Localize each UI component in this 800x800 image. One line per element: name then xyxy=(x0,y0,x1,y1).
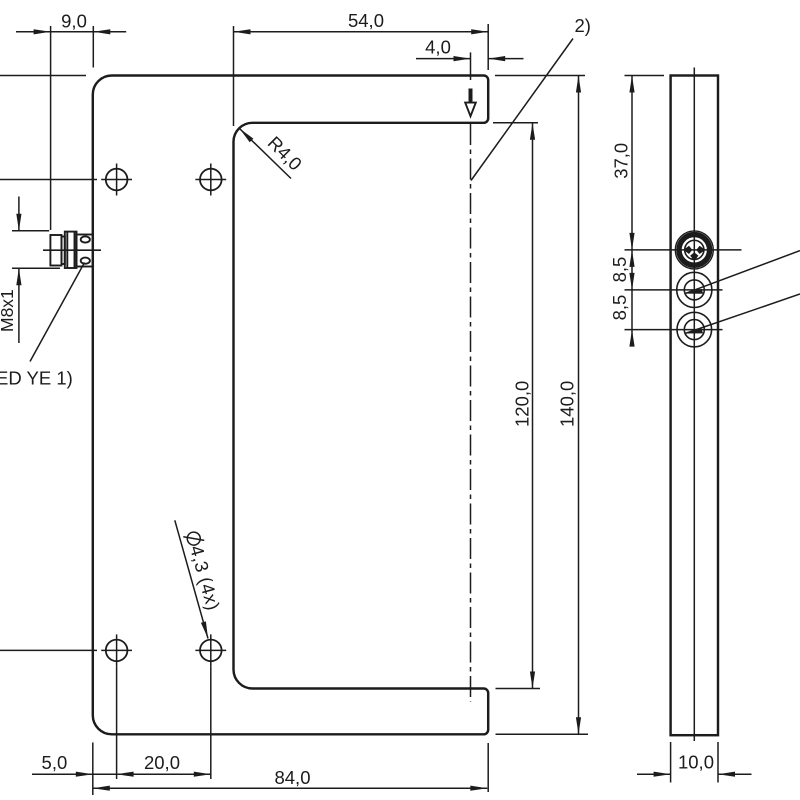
svg-text:140,0: 140,0 xyxy=(557,381,578,427)
svg-text:5,0: 5,0 xyxy=(42,752,68,773)
svg-text:37,0: 37,0 xyxy=(611,143,632,179)
svg-text:4,0: 4,0 xyxy=(425,37,451,58)
svg-text:84,0: 84,0 xyxy=(274,767,310,788)
svg-text:54,0: 54,0 xyxy=(348,10,384,31)
svg-text:2): 2) xyxy=(575,15,591,36)
svg-text:ED YE 1): ED YE 1) xyxy=(0,368,73,389)
svg-text:120,0: 120,0 xyxy=(512,381,533,427)
svg-text:8,5: 8,5 xyxy=(609,257,630,283)
svg-text:20,0: 20,0 xyxy=(144,752,180,773)
svg-text:10,0: 10,0 xyxy=(678,752,714,773)
svg-text:M8x1: M8x1 xyxy=(0,289,17,332)
svg-text:9,0: 9,0 xyxy=(61,10,87,31)
svg-text:8,5: 8,5 xyxy=(609,295,630,321)
